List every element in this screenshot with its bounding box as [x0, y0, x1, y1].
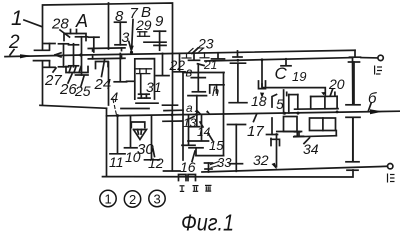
gear 16 — [182, 115, 195, 145]
big right gear upper — [349, 62, 360, 105]
svg-text:4: 4 — [111, 89, 119, 105]
shaft III rail — [202, 166, 387, 172]
sun gear A center — [76, 37, 89, 75]
carrier bracket A bottom with hatch — [66, 67, 88, 73]
arrow on shaft b — [370, 109, 383, 114]
svg-text:28: 28 — [51, 16, 69, 33]
terminal circle III — [388, 164, 393, 169]
gear below shaft B x120 — [114, 54, 133, 82]
svg-text:21: 21 — [203, 58, 217, 72]
gear 12 — [145, 116, 160, 160]
svg-text:5: 5 — [276, 96, 284, 112]
svg-text:9: 9 — [155, 13, 164, 30]
gear 17 column — [267, 118, 278, 135]
hollow sleeve shaft 3 — [88, 48, 125, 59]
gear hanging from II x237 — [233, 51, 242, 57]
gear stub on II x218 — [212, 53, 225, 59]
gear 14/15 column — [188, 115, 209, 142]
svg-text:31: 31 — [146, 79, 162, 95]
terminal circle II — [378, 55, 383, 60]
gear 5 column — [283, 90, 285, 114]
leader 13 — [190, 117, 194, 119]
gear 10 — [125, 116, 138, 148]
svg-text:1: 1 — [105, 192, 112, 207]
big middle gear x236 — [228, 125, 246, 172]
sleeve lines at shaft b near wall — [163, 110, 183, 121]
svg-text:2: 2 — [129, 192, 136, 207]
svg-text:22: 22 — [169, 57, 186, 73]
svg-text:12: 12 — [148, 155, 164, 171]
leader 25 — [81, 76, 84, 86]
leader 2 tick — [10, 50, 14, 56]
svg-text:34: 34 — [303, 141, 319, 157]
svg-text:29: 29 — [135, 17, 152, 33]
gear cells upper right — [311, 92, 337, 109]
svg-text:11: 11 — [109, 154, 124, 170]
plate 34 — [294, 131, 337, 137]
gear cells lower left — [277, 117, 302, 132]
divider wall between A and B — [108, 3, 110, 105]
leader 24 — [102, 60, 105, 77]
svg-text:17: 17 — [247, 123, 264, 140]
big right gear lower — [352, 118, 354, 162]
gear block 27/26 — [59, 44, 79, 67]
circled 1 — [100, 190, 165, 207]
svg-text:С: С — [275, 64, 288, 83]
upper line of lower box cluster — [121, 108, 149, 110]
lower box gears: gear 11 — [110, 116, 125, 154]
svg-text:24: 24 — [94, 76, 112, 93]
svg-text:33: 33 — [217, 155, 232, 170]
shaft b (middle output) — [107, 111, 400, 116]
svg-text:A: A — [75, 11, 88, 31]
gear 24 upper — [89, 37, 100, 52]
gear cells lower right — [310, 118, 336, 131]
svg-text:14: 14 — [197, 125, 211, 139]
svg-text:10: 10 — [125, 149, 141, 165]
bearing on right wall at shaft b — [346, 105, 360, 118]
coupling 23 hatching — [182, 48, 209, 58]
bearing on right wall at shaft III — [346, 162, 359, 170]
sleeve 18 on shaft C — [259, 61, 266, 89]
clutch 30 triangle — [134, 130, 147, 140]
leader a arrow — [195, 110, 203, 115]
housing box 1 (sections A,B) — [40, 3, 173, 108]
svg-text:1: 1 — [11, 7, 23, 30]
roman I under box — [180, 185, 212, 191]
bottom feet near 16 — [179, 175, 196, 181]
gear cells upper left — [289, 95, 338, 113]
svg-text:15: 15 — [209, 138, 224, 153]
clutch 29 symbol — [138, 32, 150, 37]
leader 6 — [369, 104, 372, 111]
clutch 17 bracket — [271, 139, 280, 146]
junction dot B — [130, 51, 133, 54]
stacked gears b unit x198 — [191, 64, 205, 92]
leader 5 — [272, 95, 277, 108]
leader 4 dashed — [113, 99, 116, 114]
junction dots C — [237, 59, 240, 62]
svg-text:25: 25 — [74, 83, 91, 99]
svg-text:20: 20 — [328, 76, 345, 92]
bracket above clutch 30 — [131, 122, 145, 128]
junction dots on shaft b — [116, 114, 119, 117]
gear 9 — [144, 31, 166, 50]
housing box C (lower/right) — [103, 58, 354, 177]
gear 22 (left of wall) — [174, 54, 185, 72]
foot under cells — [295, 132, 304, 137]
leader 28 — [60, 30, 70, 37]
big gear C x238 — [229, 63, 247, 102]
carrier bracket B — [135, 59, 158, 104]
leader 3 — [129, 42, 131, 51]
leader 12 — [153, 149, 155, 157]
small gear 7shape bottom — [189, 148, 203, 156]
bearing on box1 left wall — [34, 50, 50, 60]
tall gear x172 — [163, 105, 181, 171]
leader 1 — [24, 20, 42, 27]
svg-text:а: а — [186, 101, 193, 115]
svg-text:в: в — [186, 65, 193, 80]
leader 32 arrow — [272, 163, 278, 170]
long vertical to III — [276, 134, 278, 167]
svg-text:3: 3 — [122, 29, 130, 45]
leader 34 — [304, 138, 310, 144]
junction dot A — [79, 53, 82, 56]
svg-text:б: б — [368, 90, 377, 107]
leaders 33 — [211, 162, 220, 168]
leader 26 — [68, 74, 72, 83]
gear below shaft B x162 — [156, 53, 169, 75]
gear inside carrier B — [138, 75, 150, 99]
carrier bracket A top — [64, 30, 86, 41]
leader 14 — [200, 122, 203, 127]
leader 7 with arrow — [130, 20, 134, 52]
svg-text:2: 2 — [8, 32, 20, 53]
svg-text:16: 16 — [180, 159, 196, 175]
planetary unit b box — [183, 73, 224, 161]
gear 27 small left — [44, 44, 55, 68]
svg-text:23: 23 — [197, 36, 214, 52]
svg-text:h: h — [212, 84, 219, 99]
input arrow — [20, 54, 32, 58]
roman II at output — [375, 66, 382, 75]
input shaft 2 — [5, 54, 173, 57]
bracket 19 — [260, 84, 335, 98]
svg-text:Фиг.1: Фиг.1 — [181, 210, 234, 234]
shaft II (23) — [173, 50, 378, 58]
gear 13 column — [189, 115, 200, 127]
leader 15 — [208, 133, 213, 141]
leader 23 — [192, 48, 198, 54]
roman III at output — [388, 174, 395, 183]
svg-text:18: 18 — [251, 93, 267, 109]
leader 21 — [198, 64, 205, 66]
leader 17 — [254, 115, 257, 122]
clutch in carrier B — [136, 69, 152, 74]
element 33 — [205, 163, 213, 172]
svg-text:32: 32 — [253, 152, 269, 168]
small arrow on shaft at A — [55, 53, 61, 57]
gear below b-box x197 — [188, 96, 207, 115]
gear 8 — [115, 22, 127, 45]
gear on shaft II at 194 — [189, 54, 200, 61]
clutch 24 lower brackets — [96, 62, 109, 69]
leader 16 — [192, 151, 195, 162]
clutch h bracket — [210, 85, 224, 93]
leader 27 — [53, 68, 56, 72]
gear x286 below II line — [281, 59, 291, 66]
svg-text:19: 19 — [292, 69, 306, 84]
svg-text:3: 3 — [154, 192, 161, 207]
svg-text:13: 13 — [183, 116, 197, 130]
svg-text:8: 8 — [115, 8, 124, 25]
